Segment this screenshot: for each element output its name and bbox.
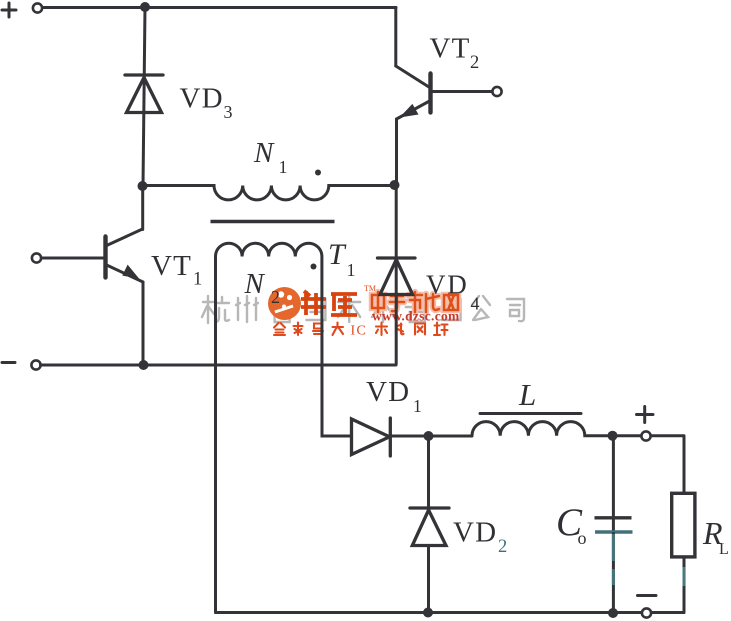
watermark 维库 bold	[301, 291, 357, 315]
wire VT2 emitter vertical	[395, 119, 398, 185]
- input label	[2, 361, 15, 364]
svg-text:4: 4	[471, 294, 480, 314]
junction Co bottom	[608, 608, 618, 618]
wire VD4 vertical	[395, 185, 398, 364]
input terminal bottom-left	[31, 360, 40, 369]
wire VT1 collector vertical	[141, 186, 144, 230]
transistor VT2	[396, 66, 492, 119]
phase dot N1	[315, 170, 321, 176]
watermark 电子市场网 with halo	[372, 292, 458, 312]
svg-text:L: L	[518, 377, 536, 412]
inductor L	[472, 422, 641, 436]
svg-text:www.dzsc.com: www.dzsc.com	[372, 309, 460, 324]
diode VD1	[352, 418, 391, 456]
wire + to RL	[651, 436, 684, 493]
watermark 全球最大IC采购网站	[274, 323, 448, 339]
grey char 杭	[202, 296, 229, 323]
transistor VT1	[41, 229, 143, 282]
grey char 司	[507, 299, 524, 321]
svg-text:2: 2	[271, 287, 280, 307]
grey char 州	[236, 296, 258, 322]
wire mid rail	[41, 364, 397, 367]
svg-text:T: T	[328, 238, 347, 271]
grey char 有	[406, 296, 428, 322]
watermark grey company text 杭州...公司	[202, 296, 524, 323]
junction VD1-VD2 node	[424, 431, 434, 441]
grey char 技	[372, 296, 394, 322]
transformer core	[211, 220, 335, 223]
grey char 公	[472, 296, 490, 320]
junction L-Co node	[608, 431, 618, 441]
svg-text:1: 1	[347, 260, 356, 280]
grey char 科	[338, 296, 360, 322]
svg-text:1: 1	[413, 396, 422, 416]
grey char 睿	[306, 299, 325, 320]
capacitor Co	[595, 436, 633, 613]
+ input label	[2, 3, 16, 17]
svg-text:3: 3	[224, 102, 233, 122]
wire VT1 emitter vertical	[142, 282, 145, 365]
output terminal -	[642, 608, 651, 617]
diode VD2	[410, 436, 449, 613]
svg-text:I: I	[351, 324, 356, 339]
wire left vertical	[143, 8, 145, 187]
resistor RL	[672, 493, 695, 557]
svg-text:C: C	[357, 324, 366, 339]
junction top-left	[140, 2, 150, 12]
svg-text:N: N	[244, 268, 266, 300]
input terminal top-left	[33, 3, 42, 12]
wire top rail	[43, 6, 397, 9]
grey char 将	[271, 296, 293, 322]
svg-text:VT: VT	[430, 33, 471, 65]
svg-text:VD: VD	[180, 83, 224, 115]
svg-text:2: 2	[470, 53, 479, 73]
wire RL bottom	[683, 557, 686, 613]
svg-text:o: o	[578, 528, 587, 548]
wire bottom rail	[216, 611, 685, 614]
grey char 限	[442, 299, 461, 320]
input terminal VT1 base	[32, 253, 41, 262]
wire VD1 to L	[390, 435, 472, 438]
svg-text:VD: VD	[453, 517, 497, 549]
junction mid left	[139, 360, 149, 370]
svg-text:1: 1	[279, 157, 288, 177]
svg-text:VD: VD	[426, 270, 469, 300]
base terminal VT2	[492, 87, 501, 96]
phase dot N2	[311, 264, 317, 270]
diode VD4	[378, 258, 416, 295]
winding N2 with legs	[216, 243, 352, 612]
junction VD2 bottom	[423, 608, 433, 618]
output terminal +	[641, 431, 650, 440]
svg-text:VD: VD	[366, 376, 410, 408]
L overline	[480, 412, 581, 415]
junction N1 left	[138, 181, 148, 191]
watermark logo circle	[268, 287, 301, 320]
svg-text:VT: VT	[151, 250, 192, 282]
wire VT2 collector drop	[394, 8, 397, 67]
svg-text:2: 2	[498, 537, 507, 557]
- output label	[638, 594, 657, 597]
svg-text:L: L	[719, 541, 729, 558]
diode VD3	[125, 75, 163, 113]
svg-text:N: N	[253, 137, 275, 169]
svg-text:1: 1	[193, 270, 202, 290]
junction N1 right	[390, 180, 400, 190]
svg-text:TM: TM	[364, 284, 376, 293]
+ output label	[637, 407, 654, 423]
inductor N1	[143, 186, 395, 200]
